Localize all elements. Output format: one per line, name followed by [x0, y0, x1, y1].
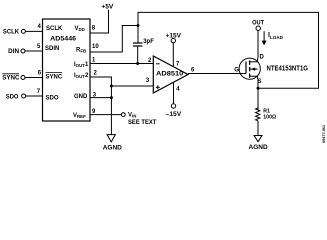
wire SYNC to pin 6 — [25, 77, 43, 79]
svg-text:VREF: VREF — [73, 113, 86, 119]
wire MOSFET source down to R1 — [257, 79, 259, 110]
ground AGND (left) — [107, 135, 115, 142]
svg-text:GND: GND — [74, 94, 88, 100]
wire MOSFET drain to OUT terminal — [257, 31, 259, 59]
svg-text:AGND: AGND — [103, 144, 122, 151]
wire feedback top from node to right edge — [138, 12, 319, 88]
node junction cap bottom on IOUT1 wire — [136, 62, 139, 65]
wire RFB pin 10 to feedback node — [90, 26, 138, 53]
ground AGND (right) — [254, 136, 262, 142]
svg-text:IOUT1: IOUT1 — [74, 62, 89, 68]
svg-text:SYNC: SYNC — [2, 75, 20, 81]
svg-text:SYNC: SYNC — [46, 74, 63, 80]
transistor Q1 NTE4153NT1G N-channel MOSFET — [239, 58, 260, 79]
svg-text:100Ω: 100Ω — [263, 115, 276, 121]
svg-text:SEE TEXT: SEE TEXT — [128, 120, 157, 126]
svg-text:3pF: 3pF — [143, 39, 154, 45]
svg-text:10: 10 — [92, 44, 99, 50]
op-amp plus sign — [156, 86, 160, 88]
wire SDO to pin 7 — [26, 95, 43, 97]
DAC U1 AD5446 box — [43, 19, 91, 121]
power -15V terminal — [171, 104, 175, 108]
wire R1 to AGND — [257, 121, 259, 136]
node junction IOUT2 / op-amp noninverting input — [110, 85, 113, 88]
wire node down to AGND — [110, 86, 112, 135]
svg-text:AD5446: AD5446 — [50, 36, 76, 43]
resistor R1 100 ohm — [256, 108, 260, 121]
svg-text:SCLK: SCLK — [46, 26, 63, 32]
wire +15V to op-amp pin 7 — [172, 43, 174, 67]
wire op-amp output to MOSFET gate — [188, 73, 239, 75]
svg-text:09477-061: 09477-061 — [322, 125, 326, 143]
current arrow ILOAD — [263, 31, 265, 41]
wire +5V to VDD pin 8 — [90, 10, 109, 33]
svg-text:SDO: SDO — [46, 96, 59, 102]
svg-text:+5V: +5V — [101, 4, 114, 11]
svg-text:D: D — [260, 55, 265, 61]
wire IOUT1 pin 1 to op-amp inverting input — [90, 63, 153, 65]
svg-text:OUT: OUT — [252, 19, 264, 26]
wire GND pin 3 to node — [90, 97, 111, 99]
node junction cap top / RFB / feedback — [137, 24, 140, 27]
svg-text:SDIN: SDIN — [45, 46, 59, 52]
capacitor C1 3pF — [137, 26, 139, 44]
svg-text:G: G — [234, 68, 239, 74]
svg-text:SDO: SDO — [6, 94, 19, 100]
svg-text:NTE4153NT1G: NTE4153NT1G — [267, 66, 309, 73]
wire DIN to pin 5 — [25, 50, 43, 52]
svg-text:IOUT2: IOUT2 — [74, 73, 89, 79]
wire VREF pin 9 to VIN terminal — [90, 114, 121, 116]
svg-text:SCLK: SCLK — [3, 29, 20, 35]
wire IOUT2 pin 2 down to GND node — [90, 77, 111, 86]
svg-text:DIN: DIN — [8, 49, 19, 55]
op-amp minus sign — [156, 63, 160, 65]
svg-text:AGND: AGND — [249, 144, 268, 151]
svg-text:VIN: VIN — [128, 112, 136, 118]
wire op-amp pin 4 to -15V — [173, 82, 175, 104]
svg-text:AD8510: AD8510 — [156, 71, 184, 77]
node junction source/feedback — [257, 87, 260, 90]
node junction GND / AGND branch — [110, 96, 113, 99]
terminal VIN — [121, 113, 125, 117]
wire SCLK to pin 4 — [25, 30, 42, 32]
op-amp U2 AD8510 — [153, 56, 188, 93]
svg-text:–15V: –15V — [166, 111, 182, 118]
terminal OUT — [256, 26, 260, 30]
svg-text:VDD: VDD — [75, 26, 85, 32]
wire node to op-amp noninverting input — [111, 85, 153, 87]
svg-text:RFB: RFB — [76, 47, 86, 53]
